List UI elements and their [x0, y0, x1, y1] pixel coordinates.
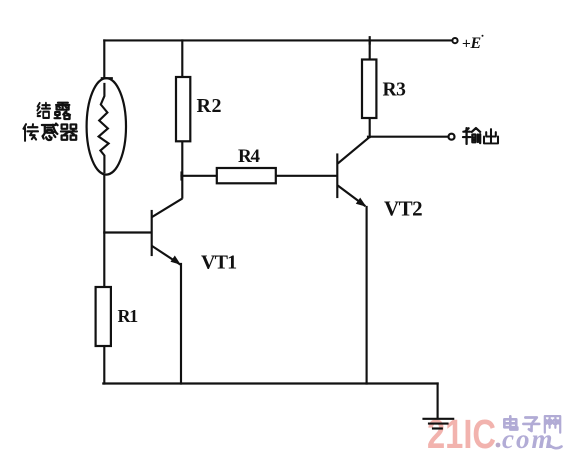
- terminal output circle: [449, 134, 455, 140]
- node junction dot on top rail at R3 branch: [369, 37, 371, 43]
- resistor R1 body: [96, 287, 111, 346]
- transistor VT2 emitter diagonal with arrow: [338, 186, 366, 207]
- wire top rail from left corner to +E terminal: [104, 39, 451, 41]
- svg-text:VT1: VT1: [201, 252, 236, 274]
- transistor VT2 collector diagonal: [338, 138, 368, 163]
- svg-text:R3: R3: [383, 80, 407, 101]
- wire ground drop from bottom rail: [437, 384, 439, 419]
- svg-text:R4: R4: [238, 146, 261, 167]
- svg-text:VT2: VT2: [384, 197, 422, 221]
- dew sensor ellipse body: [87, 78, 126, 174]
- svg-text:R2: R2: [197, 95, 223, 117]
- resistor R3 body: [362, 60, 376, 119]
- transistor VT2 base bar: [336, 155, 338, 198]
- node junction tick at R2/R4/VT1-collector: [180, 173, 182, 180]
- watermark 电 char: [504, 416, 517, 429]
- transistor VT1 emitter diagonal with arrow: [153, 247, 181, 265]
- watermark 子 char: [523, 417, 539, 431]
- svg-text:R1: R1: [118, 306, 139, 326]
- label 器 (sensor name char 5): [61, 124, 77, 139]
- wire left vertical rail (sensor branch): [103, 40, 105, 383]
- watermark dot of .com: [496, 443, 501, 448]
- wire output horizontal from VT2 collector node: [368, 136, 448, 138]
- label 露 (sensor name char 2): [55, 103, 70, 119]
- wire R4 horizontal from junction to VT2 base: [182, 175, 337, 177]
- resistor R4 body: [217, 168, 276, 183]
- watermark 网 char: [545, 416, 560, 432]
- label 结 (sensor name char 1): [37, 103, 50, 118]
- wire R2 branch vertical (top rail to VT1 collector corner): [181, 40, 183, 197]
- label 感 (sensor name char 4): [42, 124, 58, 140]
- resistor R2 body: [176, 77, 190, 141]
- svg-text:E: E: [470, 35, 482, 52]
- label 传 (sensor name char 3): [23, 124, 38, 141]
- transistor VT1 collector diagonal: [153, 199, 182, 217]
- wire VT1 base horizontal: [104, 231, 150, 233]
- wire R3 branch vertical (top rail to VT2 collector node): [369, 40, 371, 137]
- dew sensor top junction tick: [102, 77, 112, 79]
- terminal +E circle: [452, 38, 457, 43]
- wire bottom rail: [103, 382, 437, 384]
- label 出 (output char 2): [484, 129, 498, 143]
- dew sensor internal zigzag element: [99, 84, 109, 172]
- label 输 (output char 1): [463, 128, 480, 144]
- wire VT2 emitter vertical down to bottom rail: [366, 207, 368, 384]
- wire VT1 emitter vertical down to bottom rail: [180, 264, 182, 384]
- ground symbol (three bars): [424, 419, 454, 429]
- transistor VT1 base bar: [151, 211, 153, 255]
- terminal +E label: [462, 35, 484, 53]
